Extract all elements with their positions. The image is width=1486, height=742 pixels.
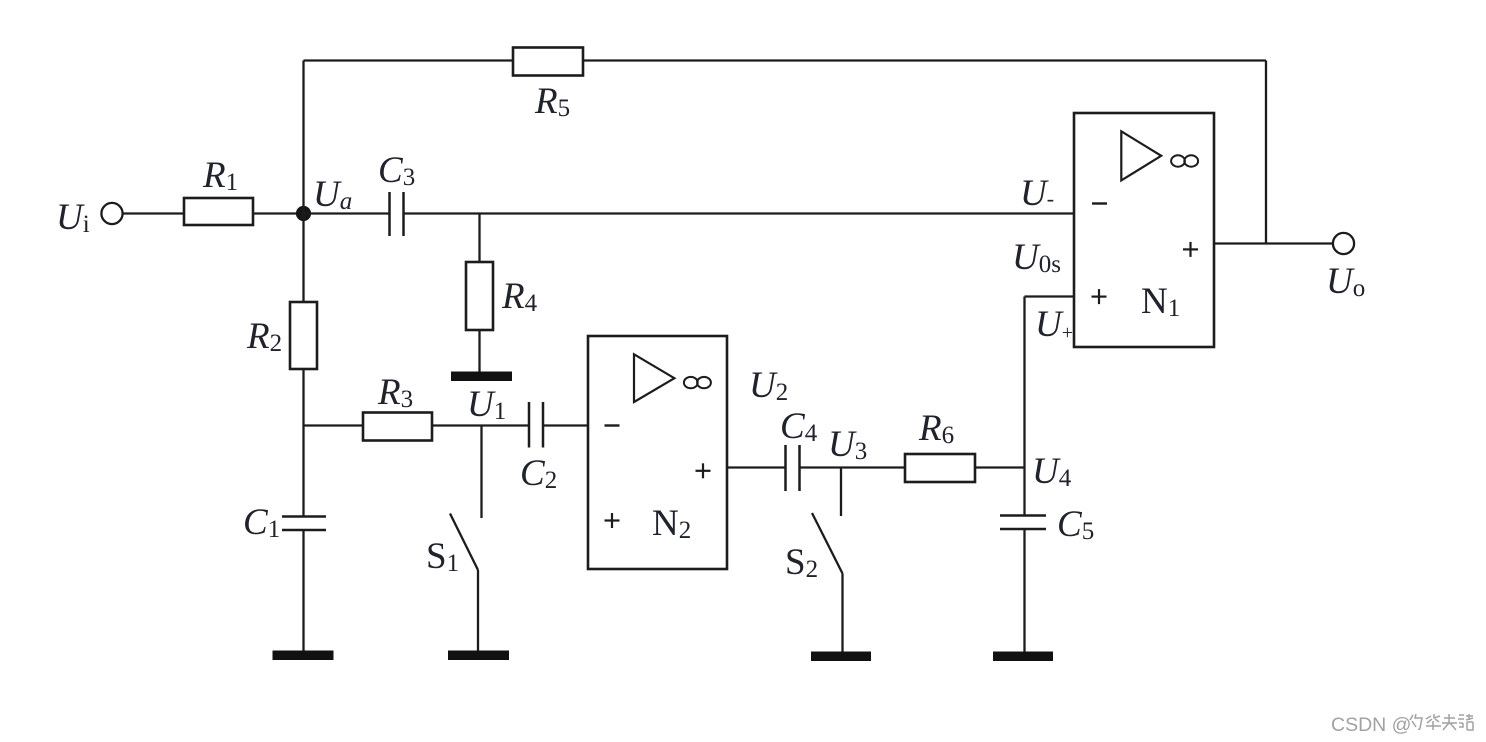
- terminal Ui: [101, 203, 122, 224]
- op-amp N1 plus input mark: [1092, 289, 1107, 304]
- capacitor C1: [282, 517, 326, 531]
- wire top feedback right segment: [583, 59, 1266, 61]
- wire C3 to N1 inverting input: [404, 212, 1075, 214]
- capacitor C4: [786, 445, 800, 491]
- wire S1 to ground: [477, 570, 479, 651]
- wire N2 output to C4: [727, 466, 786, 468]
- wire node U1 down to switch S1: [480, 426, 482, 519]
- op-amp N1 box: [1074, 113, 1214, 347]
- wire Ui to R1: [123, 212, 184, 214]
- wire C1 to ground: [302, 530, 304, 651]
- op-amp N1 output plus mark: [1183, 242, 1198, 257]
- op-amp N2 plus mark bottom-left: [605, 513, 620, 528]
- resistor R4: [466, 262, 493, 330]
- wire node U4 up to N1 non-inverting input: [1023, 297, 1025, 468]
- op-amp N2 infinity symbol: [684, 377, 711, 388]
- node Ua junction dot: [296, 206, 311, 221]
- switch S1 blade: [450, 514, 478, 571]
- wire feedback down to output: [1265, 61, 1267, 244]
- resistor R2: [290, 302, 317, 369]
- wire node U4 down to C5: [1023, 468, 1025, 516]
- wire to N1 plus input: [1025, 295, 1075, 297]
- op-amp N1 infinity symbol: [1171, 155, 1198, 166]
- wire node Ua up to feedback: [302, 61, 304, 214]
- wire node U3 down to switch S2: [840, 468, 842, 517]
- wire C5 to ground: [1023, 529, 1025, 652]
- wire R1 to node Ua: [253, 212, 304, 214]
- wire R4 to ground: [478, 330, 480, 372]
- switch S2 blade: [812, 513, 843, 574]
- wire top feedback left segment: [304, 59, 514, 61]
- wire N1 output to terminal Uo: [1214, 242, 1333, 244]
- wire junction to R3: [304, 424, 364, 426]
- wire S2 to ground: [841, 574, 843, 653]
- resistor R1: [184, 198, 253, 225]
- ground under R4: [451, 372, 512, 382]
- resistor R6: [905, 454, 975, 482]
- capacitor C5: [1000, 516, 1046, 530]
- resistor R5: [513, 48, 583, 76]
- op-amp N1 minus input mark: [1092, 202, 1107, 204]
- wire R2 to C1 with junction to R3: [302, 369, 304, 517]
- svg-text:CSDN @: CSDN @: [1331, 714, 1411, 736]
- ground under C5: [993, 652, 1053, 662]
- wire C4 to R6 with node U3: [800, 466, 906, 468]
- wire node Ua down to R2: [302, 214, 304, 303]
- wire R3 to C2 with node U1: [432, 424, 529, 426]
- capacitor C2: [529, 402, 543, 448]
- wire junction to R4: [478, 214, 480, 263]
- op-amp N2 triangle: [634, 354, 674, 402]
- ground under C1: [273, 651, 334, 661]
- wire node Ua to C3: [304, 212, 390, 214]
- op-amp N2 output plus mark: [696, 463, 711, 478]
- wire R6 to node U4: [975, 466, 1025, 468]
- wire C2 to N2 inverting input: [543, 424, 588, 426]
- op-amp N2 minus input mark: [605, 424, 620, 426]
- ground under S2: [811, 652, 871, 662]
- op-amp N2 box: [588, 336, 727, 569]
- ground under S1: [448, 651, 509, 661]
- terminal Uo: [1333, 233, 1354, 254]
- op-amp N1 triangle: [1121, 131, 1161, 180]
- resistor R3: [363, 413, 432, 441]
- capacitor C3: [390, 192, 404, 236]
